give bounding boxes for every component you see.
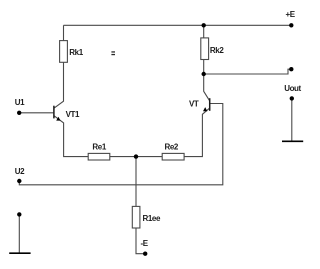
transistor Q2 VT base bar bbox=[209, 98, 211, 111]
svg-text:Rk1: Rk1 bbox=[69, 48, 83, 57]
svg-text:+E: +E bbox=[286, 10, 296, 19]
svg-text:Uout: Uout bbox=[284, 84, 301, 93]
node junction Rk2 / collector / Uout bbox=[202, 72, 206, 76]
label equals sign bbox=[111, 51, 115, 52]
svg-text:U1: U1 bbox=[15, 98, 25, 107]
svg-text:Re2: Re2 bbox=[165, 142, 179, 151]
svg-text:U2: U2 bbox=[15, 167, 25, 176]
transistor Q1 VT1 emitter arrow bbox=[56, 117, 60, 121]
wire Re2 to VT emitter bbox=[184, 108, 209, 156]
wire Rk1 bottom to VT1 collector bbox=[54, 62, 63, 108]
node terminal Uout ground bbox=[290, 96, 294, 100]
wire Rk2 top lead bbox=[203, 25, 205, 38]
node terminal U1 bbox=[17, 111, 21, 115]
node terminal -E bbox=[143, 252, 147, 256]
svg-text:Re1: Re1 bbox=[92, 142, 106, 151]
wire U1 base lead bbox=[19, 112, 53, 114]
svg-text:Rk2: Rk2 bbox=[210, 46, 224, 55]
wire Re1 to junction to Re2 bbox=[110, 156, 162, 158]
wire Rk2 bottom to VT collector bbox=[204, 60, 210, 101]
wire Rk1 top lead bbox=[63, 25, 65, 40]
resistor Re1 bbox=[88, 153, 110, 160]
transistor Q1 VT1 base bar bbox=[53, 106, 55, 119]
wire top rail +E bbox=[64, 24, 292, 26]
node junction top rail / Rk2 bbox=[202, 23, 206, 27]
node junction Re1/Re2/R1ee bbox=[134, 154, 138, 158]
wire collector junction to Uout terminal bbox=[204, 69, 292, 74]
wire U2 ground stem bbox=[18, 214, 20, 252]
ground symbol under Uout bbox=[282, 140, 303, 142]
resistor Re2 bbox=[162, 153, 184, 160]
ground symbol under U2 bbox=[9, 252, 30, 254]
wire U2 to VT base bbox=[19, 104, 223, 185]
node terminal U2 ground bbox=[17, 212, 21, 216]
node terminal U2 bbox=[17, 179, 21, 183]
svg-text:-E: -E bbox=[141, 239, 149, 248]
node terminal +E bbox=[289, 23, 293, 27]
svg-text:VT1: VT1 bbox=[66, 110, 80, 119]
transistor Q2 VT emitter arrow bbox=[203, 107, 207, 111]
wire R1ee bottom to -E terminal bbox=[136, 228, 145, 254]
wire junction to R1ee top bbox=[135, 157, 137, 207]
wire VT1 emitter lead bbox=[54, 116, 88, 157]
svg-text:VT: VT bbox=[189, 100, 199, 109]
svg-text:R1ee: R1ee bbox=[143, 214, 161, 223]
resistor Rk2 bbox=[201, 38, 209, 60]
resistor Rk1 bbox=[60, 41, 68, 63]
resistor R1ee bbox=[132, 206, 140, 228]
node terminal Uout bbox=[289, 67, 293, 71]
wire Uout ground stem bbox=[291, 98, 293, 140]
